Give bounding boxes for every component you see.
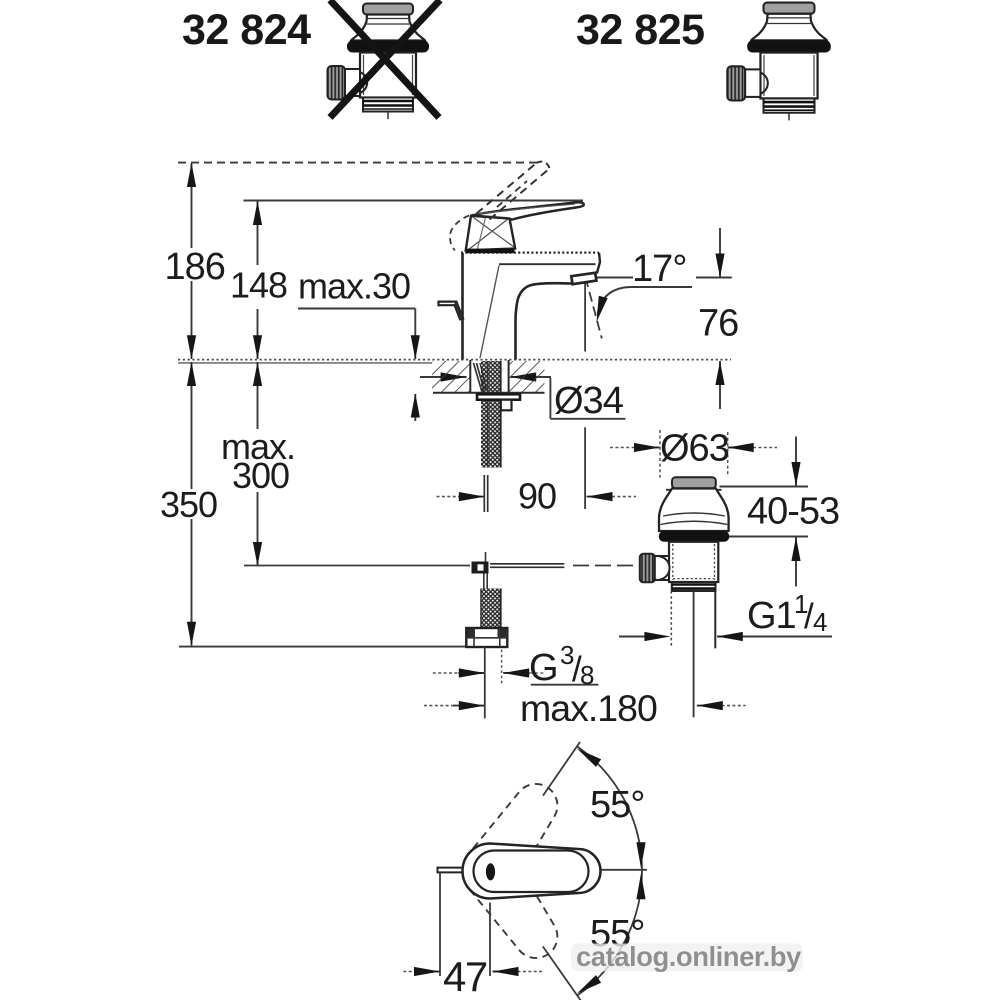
svg-text:148: 148 (230, 265, 287, 306)
svg-text:90: 90 (518, 476, 556, 517)
svg-text:300: 300 (232, 455, 289, 496)
svg-text:Ø63: Ø63 (660, 428, 729, 470)
svg-text:47: 47 (443, 953, 487, 1000)
svg-text:40-53: 40-53 (747, 491, 839, 533)
svg-text:76: 76 (698, 303, 738, 345)
svg-text:8: 8 (580, 660, 594, 690)
svg-text:32 824: 32 824 (182, 6, 311, 54)
svg-text:max.30: max.30 (298, 266, 410, 307)
svg-text:186: 186 (165, 246, 225, 288)
svg-text:350: 350 (160, 484, 217, 525)
svg-text:G: G (529, 647, 558, 689)
svg-text:32 825: 32 825 (576, 6, 705, 54)
svg-text:4: 4 (813, 607, 827, 637)
svg-text:55°: 55° (590, 784, 644, 826)
svg-text:Ø34: Ø34 (554, 380, 624, 422)
svg-text:max.180: max.180 (520, 687, 657, 729)
svg-text:G1: G1 (747, 595, 796, 637)
svg-text:17°: 17° (632, 248, 686, 290)
svg-text:catalog.onliner.by: catalog.onliner.by (576, 941, 802, 972)
